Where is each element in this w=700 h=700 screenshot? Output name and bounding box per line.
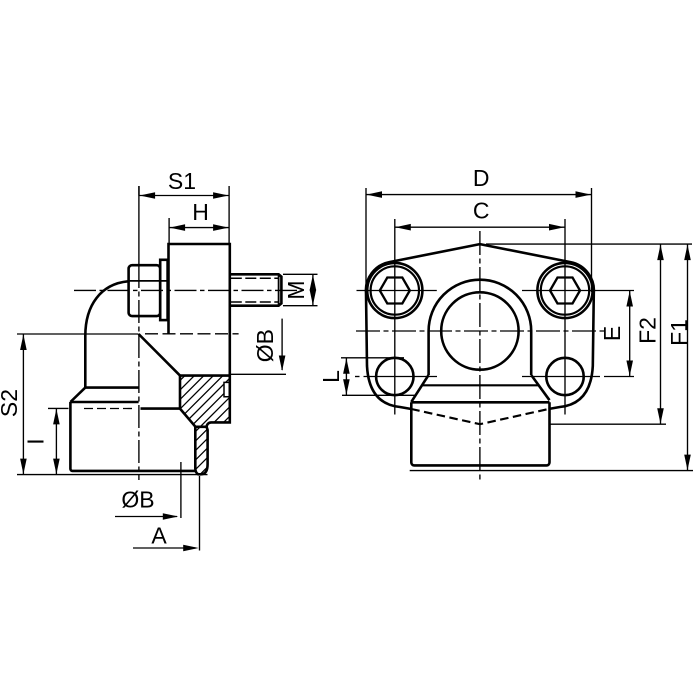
svg-text:F2: F2 (635, 317, 661, 344)
svg-text:S1: S1 (168, 168, 196, 194)
svg-text:S2: S2 (0, 389, 22, 417)
svg-text:L: L (318, 370, 344, 383)
svg-text:C: C (473, 198, 490, 224)
svg-text:E: E (599, 326, 625, 341)
svg-text:M: M (283, 280, 309, 299)
svg-text:F1: F1 (666, 319, 692, 346)
svg-text:D: D (473, 165, 490, 191)
svg-text:H: H (192, 199, 209, 225)
svg-text:ØB: ØB (121, 487, 154, 513)
svg-text:I: I (23, 438, 49, 444)
svg-text:ØB: ØB (252, 329, 278, 362)
svg-text:A: A (151, 523, 167, 549)
